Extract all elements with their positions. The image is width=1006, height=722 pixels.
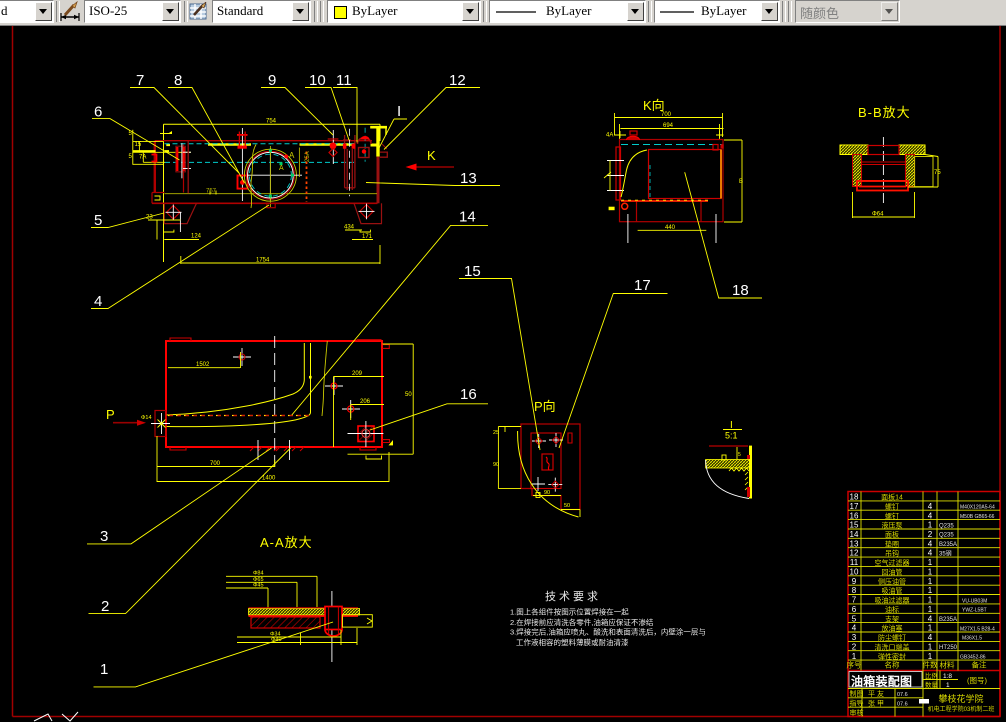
svg-text:75: 75 xyxy=(934,170,941,176)
pipes item10/11 xyxy=(343,135,355,190)
gauge mount L-bracket xyxy=(152,155,157,162)
svg-text:B-B放大: B-B放大 xyxy=(858,105,911,120)
K view right dim xyxy=(724,140,742,222)
left leg bolt xyxy=(166,205,182,233)
tank top plate highlight xyxy=(208,143,251,146)
svg-text:工作液相容的塑料薄膜或耐油清漆: 工作液相容的塑料薄膜或耐油清漆 xyxy=(516,637,629,647)
svg-text:1: 1 xyxy=(852,652,857,661)
leader 14 xyxy=(292,225,488,415)
svg-text:4: 4 xyxy=(928,511,933,520)
drain boss under tank xyxy=(267,203,275,207)
leader 3 xyxy=(87,448,272,544)
svg-text:16: 16 xyxy=(850,511,859,520)
svg-text:90: 90 xyxy=(544,490,550,496)
dimstyle icon xyxy=(59,1,81,23)
detail I hatch band xyxy=(706,460,750,469)
svg-text:17: 17 xyxy=(850,502,859,511)
plan centerline xyxy=(274,336,276,472)
K view left dim ticks xyxy=(604,161,611,191)
svg-text:垫圈: 垫圈 xyxy=(885,539,899,548)
B-B top flange hatched xyxy=(840,145,925,155)
svg-text:9: 9 xyxy=(268,72,276,89)
detail I arc xyxy=(706,460,749,499)
tank inner left wall xyxy=(187,141,189,194)
leader 9 xyxy=(261,88,333,136)
detail I right hatch strip xyxy=(745,472,748,490)
svg-text:清洗口端盖: 清洗口端盖 xyxy=(875,642,910,651)
tablestyle icon xyxy=(189,2,209,22)
svg-text:支架: 支架 xyxy=(885,614,899,623)
svg-text:25A: 25A xyxy=(305,151,311,162)
svg-text:5: 5 xyxy=(852,614,857,623)
B-B side columns hatched xyxy=(853,155,915,187)
title cell xyxy=(849,672,922,688)
leader 6 xyxy=(92,119,180,160)
leader I xyxy=(379,119,407,148)
svg-text:B235A: B235A xyxy=(939,542,957,548)
svg-text:螺钉: 螺钉 xyxy=(885,502,899,511)
svg-text:206: 206 xyxy=(360,399,371,405)
combo lineweight ByLayer xyxy=(654,0,780,23)
svg-text:8: 8 xyxy=(852,586,857,595)
K view bottom dim xyxy=(628,214,716,243)
svg-text:12: 12 xyxy=(449,72,466,89)
signature rows xyxy=(850,689,908,717)
svg-text:3: 3 xyxy=(100,528,108,545)
B-B centerline xyxy=(882,137,884,203)
svg-text:审核: 审核 xyxy=(850,708,864,717)
leader 7 xyxy=(130,88,239,174)
left gauge bracket dims xyxy=(133,130,191,165)
leader 13 xyxy=(366,183,500,186)
lifting eye item12 xyxy=(358,128,372,162)
svg-text:K向: K向 xyxy=(643,98,665,113)
svg-text:名称: 名称 xyxy=(885,660,900,670)
svg-text:(图号): (图号) xyxy=(967,676,987,685)
callout numbers xyxy=(94,72,749,678)
K view inner box xyxy=(649,150,722,199)
svg-text:VU-UB03M: VU-UB03M xyxy=(962,598,987,604)
svg-text:5:1: 5:1 xyxy=(725,431,738,441)
leader 17 xyxy=(559,294,668,449)
svg-text:技术要求: 技术要求 xyxy=(545,590,601,603)
svg-text:吸油管: 吸油管 xyxy=(882,586,903,595)
svg-text:15: 15 xyxy=(135,142,142,148)
svg-text:件数: 件数 xyxy=(923,660,938,670)
svg-text:2: 2 xyxy=(852,642,857,651)
leader 10 xyxy=(305,88,349,141)
section break curve xyxy=(251,145,256,209)
svg-text:1: 1 xyxy=(928,642,933,651)
svg-text:Φ45: Φ45 xyxy=(253,583,264,589)
svg-text:6: 6 xyxy=(94,104,102,121)
K view left rail xyxy=(607,147,624,200)
svg-text:4: 4 xyxy=(928,539,933,548)
svg-text:B: B xyxy=(739,179,743,185)
svg-text:I: I xyxy=(397,103,401,120)
plan bolt hole 3 xyxy=(342,400,360,418)
svg-text:90: 90 xyxy=(493,462,499,468)
svg-text:1: 1 xyxy=(928,568,933,577)
svg-text:5: 5 xyxy=(738,452,741,458)
svg-text:K: K xyxy=(427,148,436,163)
plan corner tabs xyxy=(170,338,389,450)
svg-text:18: 18 xyxy=(850,493,859,502)
svg-text:弹性密封: 弹性密封 xyxy=(878,652,906,661)
svg-text:3.焊接完后,油箱应喷丸、酸洗和表面清洗后，内壁涂一层与: 3.焊接完后,油箱应喷丸、酸洗和表面清洗后，内壁涂一层与 xyxy=(510,627,706,637)
P view center box xyxy=(542,454,553,470)
svg-text:757: 757 xyxy=(206,189,217,195)
svg-text:4A: 4A xyxy=(606,133,613,139)
svg-text:1754: 1754 xyxy=(256,258,270,264)
detail I corner on tank xyxy=(370,127,387,157)
K view corner marks xyxy=(614,131,724,138)
svg-text:B235A: B235A xyxy=(939,617,957,623)
svg-text:14: 14 xyxy=(850,530,859,539)
svg-text:1: 1 xyxy=(946,682,950,689)
svg-text:螺钉: 螺钉 xyxy=(885,511,899,520)
P view bottom marks xyxy=(533,493,580,518)
B-B inner sleeve xyxy=(862,155,906,187)
left leg xyxy=(164,203,196,223)
svg-text:1: 1 xyxy=(928,596,933,605)
suction valve item7/8 xyxy=(237,128,248,201)
leader 5 xyxy=(91,213,164,228)
K view top dims xyxy=(615,113,724,140)
svg-text:754: 754 xyxy=(266,119,277,125)
svg-text:15: 15 xyxy=(850,521,859,530)
svg-text:25: 25 xyxy=(493,430,499,436)
svg-text:13: 13 xyxy=(850,539,859,548)
bottom dims main view xyxy=(148,220,380,264)
suction pipe hidden orange xyxy=(306,152,308,203)
svg-text:1: 1 xyxy=(928,624,933,633)
circle dim verticals xyxy=(269,146,271,207)
svg-text:4: 4 xyxy=(928,502,933,511)
scale cells xyxy=(925,671,987,689)
svg-text:1: 1 xyxy=(928,521,933,530)
svg-text:回油管: 回油管 xyxy=(882,568,903,577)
svg-text:面板: 面板 xyxy=(885,530,899,539)
svg-text:14: 14 xyxy=(459,209,476,226)
plan inside dims xyxy=(168,352,384,447)
plan outer shell xyxy=(166,341,382,447)
white blip xyxy=(919,699,929,704)
svg-text:4: 4 xyxy=(852,624,857,633)
left leg pad mark xyxy=(164,230,174,232)
parts rows numbers xyxy=(850,493,859,661)
svg-text:171: 171 xyxy=(362,234,373,240)
header row xyxy=(847,660,987,670)
P view small fitting xyxy=(568,433,572,443)
plan drain flange item16 xyxy=(348,421,384,447)
oil level gauge item6 xyxy=(176,143,191,178)
svg-text:1: 1 xyxy=(928,652,933,661)
plan hidden pipe dashed xyxy=(168,415,310,417)
tank body outline xyxy=(152,141,378,204)
combo dimstyle ISO-25 xyxy=(84,0,181,23)
svg-text:4: 4 xyxy=(94,293,102,310)
svg-text:11: 11 xyxy=(336,72,352,89)
leader 1 xyxy=(94,622,334,687)
svg-text:17: 17 xyxy=(634,277,651,294)
grips xyxy=(269,149,294,197)
svg-text:700: 700 xyxy=(661,112,672,118)
svg-text:比例: 比例 xyxy=(925,671,938,680)
svg-text:Φ84: Φ84 xyxy=(253,571,264,577)
K view drain xyxy=(622,203,628,209)
parts table outer border xyxy=(848,492,1000,717)
return pipe item9 xyxy=(328,130,339,164)
svg-text:P: P xyxy=(106,407,115,422)
K view hinge top-left xyxy=(627,131,640,140)
svg-text:M50B GB65-66: M50B GB65-66 xyxy=(960,514,995,520)
parts rows names xyxy=(875,493,910,661)
P view arc xyxy=(518,431,579,517)
detail I top line xyxy=(709,445,748,447)
svg-text:2: 2 xyxy=(101,598,109,615)
svg-text:吸油过滤器: 吸油过滤器 xyxy=(875,596,910,605)
svg-text:4: 4 xyxy=(928,549,933,558)
plan bolt hole 1 xyxy=(233,348,251,366)
svg-text:序号: 序号 xyxy=(847,660,862,670)
detail I right wall xyxy=(749,446,752,499)
svg-text:440: 440 xyxy=(665,225,676,231)
svg-text:侧压油管: 侧压油管 xyxy=(878,577,906,586)
detail I small box xyxy=(722,455,726,460)
main view top dimension xyxy=(160,124,380,262)
svg-text:2: 2 xyxy=(928,530,933,539)
combo color ByLayer xyxy=(327,0,481,23)
svg-text:攀枝花学院: 攀枝花学院 xyxy=(938,693,983,704)
svg-text:平 友: 平 友 xyxy=(868,689,884,698)
K view inner left hidden edge xyxy=(649,165,651,198)
svg-text:4: 4 xyxy=(928,633,933,642)
right leg xyxy=(354,203,382,223)
svg-text:12: 12 xyxy=(850,549,859,558)
hidden lines cyan xyxy=(165,144,357,163)
B-B right dim xyxy=(908,155,938,188)
svg-text:制图: 制图 xyxy=(850,689,864,698)
A-A flange hatched red xyxy=(251,617,320,628)
svg-text:Φ14: Φ14 xyxy=(141,415,152,421)
leader 2 xyxy=(89,448,291,614)
gauge float highlight xyxy=(133,150,156,152)
svg-text:张 甲: 张 甲 xyxy=(868,699,884,708)
svg-text:P向: P向 xyxy=(534,399,556,414)
leader 11 xyxy=(333,88,357,143)
svg-text:10: 10 xyxy=(309,72,326,89)
svg-text:备注: 备注 xyxy=(972,660,987,670)
svg-text:空气过滤器: 空气过滤器 xyxy=(875,558,910,567)
svg-text:机电工程学院03机制二班: 机电工程学院03机制二班 xyxy=(928,705,995,713)
A-A top dim callouts xyxy=(226,576,317,610)
svg-text:1502: 1502 xyxy=(196,362,210,368)
leader 18 xyxy=(685,172,762,298)
P view left bracket xyxy=(498,427,521,489)
leader 4 xyxy=(91,205,269,309)
svg-text:1: 1 xyxy=(928,586,933,595)
svg-text:16: 16 xyxy=(460,386,477,403)
svg-text:18: 18 xyxy=(732,282,749,299)
svg-text:8: 8 xyxy=(174,72,182,89)
svg-text:434: 434 xyxy=(344,225,355,231)
svg-text:HT250: HT250 xyxy=(939,645,958,651)
svg-text:7: 7 xyxy=(136,72,144,89)
svg-text:11: 11 xyxy=(850,558,859,567)
A-A gasket right xyxy=(342,615,372,627)
svg-text:液压泵: 液压泵 xyxy=(882,521,903,530)
svg-text:700: 700 xyxy=(210,461,221,467)
tank right wall highlighted xyxy=(376,127,379,157)
svg-text:07.6: 07.6 xyxy=(897,702,908,708)
main circle group xyxy=(244,148,302,202)
P view plate outline xyxy=(521,424,580,510)
combo tablestyle Standard xyxy=(212,0,311,23)
plan bottom dims xyxy=(157,344,413,482)
svg-text:YWZ-L5BT: YWZ-L5BT xyxy=(962,608,987,614)
P view inner plate xyxy=(531,433,561,489)
leader 15 xyxy=(459,279,540,451)
svg-text:07.6: 07.6 xyxy=(897,692,908,698)
svg-text:面板14: 面板14 xyxy=(881,493,903,502)
svg-text:124: 124 xyxy=(191,234,202,240)
leader 16 xyxy=(370,404,488,430)
svg-text:7A: 7A xyxy=(139,155,146,161)
svg-text:指导: 指导 xyxy=(850,699,864,708)
svg-text:5: 5 xyxy=(94,212,102,229)
svg-text:1: 1 xyxy=(928,558,933,567)
svg-text:油标: 油标 xyxy=(885,605,899,614)
leader 12 xyxy=(384,88,480,150)
svg-text:A: A xyxy=(279,165,284,172)
K view cable curve xyxy=(621,150,647,197)
svg-text:数量: 数量 xyxy=(925,680,939,689)
tank inner bottom dim xyxy=(165,193,378,195)
svg-text:35钢: 35钢 xyxy=(939,549,952,557)
toolbar xyxy=(0,0,1006,26)
svg-text:13: 13 xyxy=(460,170,477,187)
detail I weld zigzag xyxy=(729,468,749,471)
UCS icon fragment xyxy=(34,712,78,721)
svg-text:Q235: Q235 xyxy=(939,533,954,539)
detail I red bits xyxy=(747,455,750,459)
svg-text:694: 694 xyxy=(663,123,674,129)
svg-text:1: 1 xyxy=(928,605,933,614)
svg-text:15: 15 xyxy=(464,263,481,280)
parts rows material xyxy=(939,523,958,651)
svg-text:A-A放大: A-A放大 xyxy=(260,535,313,550)
B-B bottom cap xyxy=(857,181,908,191)
svg-text:2.在焊接前应清洗各零件,油箱应保证不渗结: 2.在焊接前应清洗各零件,油箱应保证不渗结 xyxy=(510,617,654,627)
svg-text:防尘螺钉: 防尘螺钉 xyxy=(878,633,906,642)
svg-text:7: 7 xyxy=(852,596,857,605)
K view hidden line xyxy=(621,144,722,146)
K view top right fitting xyxy=(713,145,718,151)
svg-text:1: 1 xyxy=(100,661,108,678)
svg-text:吊钩: 吊钩 xyxy=(885,549,899,558)
svg-text:Q235: Q235 xyxy=(939,523,954,529)
K view outer box xyxy=(620,140,724,222)
K view weld seam bottom xyxy=(621,200,708,202)
parts rows notes xyxy=(960,505,995,661)
svg-text:209: 209 xyxy=(352,371,363,377)
svg-text:材料: 材料 xyxy=(940,660,955,670)
right leg bolt xyxy=(359,204,375,220)
detail I depth dim xyxy=(736,447,738,459)
svg-text:1:8: 1:8 xyxy=(943,673,952,680)
svg-text:50: 50 xyxy=(405,392,412,398)
plan bolt hole 2 xyxy=(325,377,343,395)
svg-text:3: 3 xyxy=(852,633,857,642)
drain side mark xyxy=(389,440,394,445)
svg-text:1: 1 xyxy=(928,577,933,586)
leader 8 xyxy=(168,88,245,184)
parts rows qty xyxy=(928,502,933,661)
B-B right plate xyxy=(915,157,933,187)
combo linetype ByLayer xyxy=(489,0,646,23)
plan P-side box xyxy=(151,411,170,437)
B-B bottom dim xyxy=(853,192,915,218)
parts table grid xyxy=(848,492,1000,717)
A-A top plate hatched xyxy=(249,609,360,616)
right leg pad mark xyxy=(360,230,370,232)
svg-text:A: A xyxy=(289,151,295,160)
svg-text:Φ64: Φ64 xyxy=(872,212,884,218)
A-A bolt xyxy=(325,591,342,662)
plan bottom drain boss hatch xyxy=(250,447,304,451)
svg-text:4: 4 xyxy=(928,614,933,623)
svg-text:6: 6 xyxy=(852,605,857,614)
svg-text:50: 50 xyxy=(564,503,570,509)
combo text-style partial xyxy=(0,0,54,23)
svg-text:放油塞: 放油塞 xyxy=(882,624,903,633)
svg-text:油箱装配图: 油箱装配图 xyxy=(851,674,912,689)
combo plotstyle disabled xyxy=(795,0,900,23)
svg-text:1400: 1400 xyxy=(262,476,276,482)
P view bolt crosses xyxy=(531,433,563,492)
A-A bottom dims xyxy=(237,628,357,645)
svg-text:1.图上各组件按图示位置焊接在一起: 1.图上各组件按图示位置焊接在一起 xyxy=(510,607,629,617)
svg-text:9: 9 xyxy=(852,577,857,586)
svg-text:M36X1.5: M36X1.5 xyxy=(962,636,982,642)
plan pipe curves xyxy=(166,343,304,415)
svg-text:M27X1.5 B28-4: M27X1.5 B28-4 xyxy=(960,626,995,632)
svg-text:M40X120A5-64: M40X120A5-64 xyxy=(960,505,995,511)
svg-text:10: 10 xyxy=(850,568,859,577)
